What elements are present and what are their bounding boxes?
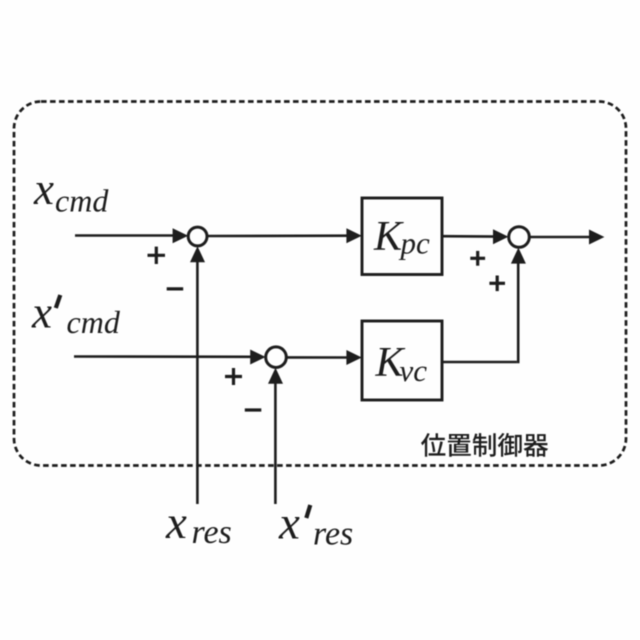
plus sign at S2 from Kvc	[489, 276, 505, 292]
label x'_res	[278, 498, 353, 553]
plus sign at S1	[148, 247, 166, 264]
svg-text:x: x	[31, 288, 52, 338]
svg-text:cmd: cmd	[67, 304, 121, 340]
minus sign at S3	[245, 408, 261, 411]
plus sign at S3	[225, 368, 242, 385]
block Kpc	[362, 198, 442, 275]
summing junction S1	[188, 227, 207, 246]
svg-text:x: x	[33, 164, 54, 214]
svg-text:vc: vc	[400, 353, 428, 388]
summing junction S3	[266, 347, 287, 368]
svg-text:pc: pc	[399, 226, 431, 261]
label x'_cmd	[31, 288, 121, 341]
wire x'_res feedback	[268, 368, 283, 504]
wire S1 to Kpc	[207, 228, 362, 243]
wire output	[529, 230, 604, 245]
svg-text:K: K	[373, 214, 404, 260]
label 位置制御器	[421, 433, 548, 457]
minus sign at S1	[167, 287, 184, 290]
svg-text:res: res	[192, 514, 232, 551]
summing junction S2	[509, 227, 530, 248]
wire Kvc to S2	[442, 248, 526, 364]
svg-text:cmd: cmd	[55, 183, 109, 219]
wire x_res feedback	[190, 246, 205, 504]
block Kvc	[362, 321, 442, 400]
svg-text:x: x	[165, 497, 187, 549]
plus sign at S2 from Kpc	[470, 251, 485, 266]
wire S3 to Kvc	[286, 350, 361, 365]
svg-text:x: x	[278, 498, 300, 550]
label x_res	[165, 497, 232, 551]
label x_cmd	[33, 164, 109, 219]
wire Kpc to S2	[442, 229, 508, 244]
wire x_cmd input	[75, 228, 188, 243]
dashed controller boundary	[14, 102, 626, 466]
svg-text:res: res	[313, 516, 353, 553]
wire x'_cmd input	[74, 350, 266, 365]
